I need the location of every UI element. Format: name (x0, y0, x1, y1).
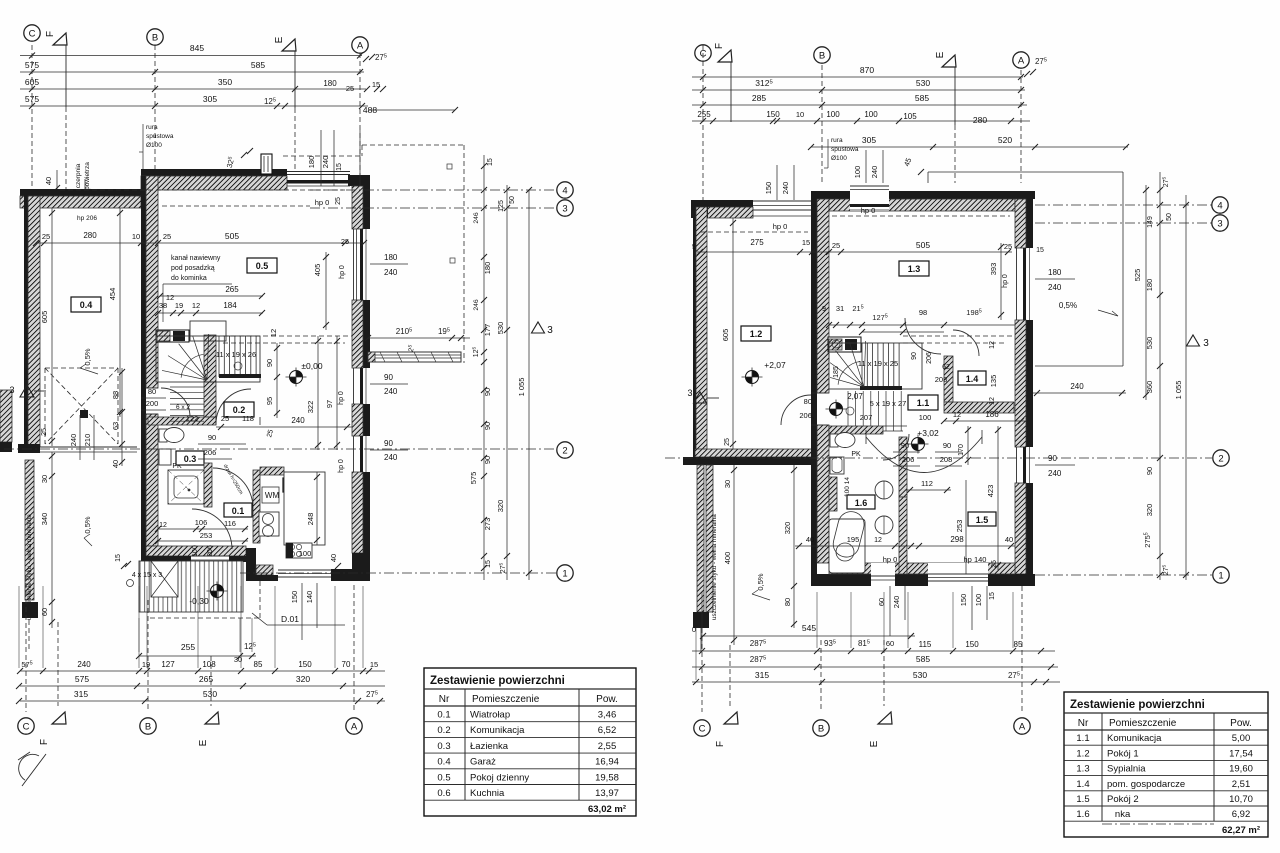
wire axis C dashed vertical bottom (left) (25, 575, 27, 712)
section marker 3 right side (right) (1187, 335, 1200, 346)
svg-text:15: 15 (115, 554, 122, 562)
svg-text:1.2: 1.2 (1076, 748, 1089, 759)
svg-text:Łazienka: Łazienka (470, 741, 509, 752)
dim 545 (right) (701, 635, 915, 637)
wire axis A dashed vertical (right top) (1020, 70, 1022, 183)
wire axis F dashed vertical (left top) (65, 107, 67, 192)
svg-text:320: 320 (296, 674, 310, 684)
node axis-E top triangle (right plan) (942, 55, 956, 67)
svg-text:B: B (145, 721, 151, 732)
svg-text:2,51: 2,51 (1232, 779, 1251, 790)
wire bottom chain 2875/585 (right) (692, 666, 1058, 668)
svg-text:30: 30 (723, 480, 732, 488)
svg-text:106: 106 (195, 518, 208, 527)
svg-text:210: 210 (83, 434, 92, 447)
svg-text:Nr: Nr (439, 694, 450, 705)
wall house top (left) (141, 169, 287, 176)
svg-text:40: 40 (44, 177, 53, 185)
svg-text:±0,00: ±0,00 (301, 361, 322, 371)
wire top chain row4 255-150-10-100-100-105-280 (right) (692, 120, 1030, 122)
svg-text:70: 70 (342, 660, 351, 669)
svg-text:90: 90 (943, 441, 951, 450)
node axis-C bottom circle (left) (18, 718, 34, 734)
svg-text:40: 40 (329, 554, 338, 562)
axis line 4 dash-dot (right) (1035, 204, 1212, 206)
svg-text:1.1: 1.1 (917, 398, 930, 408)
svg-text:100: 100 (864, 110, 878, 119)
wall corridor horizontal right part with door (left) (215, 417, 217, 425)
svg-text:do kominka: do kominka (171, 275, 207, 282)
svg-text:246: 246 (473, 212, 480, 224)
svg-text:Pow.: Pow. (596, 694, 618, 705)
axis line 2 dash-dot (right) (665, 457, 1212, 459)
svg-text:Pokoj dzienny: Pokoj dzienny (470, 772, 529, 783)
dim 265 fireplace (left) (160, 295, 263, 297)
node axis-F top triangle (left plan) (53, 33, 67, 45)
svg-text:207: 207 (860, 413, 873, 422)
svg-text:206,: 206, (799, 411, 814, 420)
wall garage left (left) (24, 189, 28, 447)
wall main right (right) with windows (1026, 191, 1033, 248)
stairs lower run (left) (170, 386, 204, 388)
svg-text:hp 0: hp 0 (338, 459, 345, 473)
svg-text:2: 2 (562, 445, 567, 456)
node axis-E top triangle (left plan) (282, 39, 296, 51)
svg-text:100: 100 (299, 549, 312, 558)
svg-text:0.5: 0.5 (437, 772, 450, 783)
svg-text:305: 305 (862, 135, 876, 145)
svg-text:1.1: 1.1 (1076, 733, 1089, 744)
axis line 3 dash-dot (right) (1035, 222, 1212, 224)
svg-text:97: 97 (325, 400, 334, 408)
svg-text:spustowa: spustowa (146, 133, 174, 140)
svg-text:B: B (818, 723, 824, 734)
svg-text:40: 40 (1005, 535, 1013, 544)
svg-text:400: 400 (723, 552, 732, 565)
door arc 1.3 (right) (905, 318, 941, 354)
svg-text:248: 248 (306, 513, 315, 526)
svg-text:2,55: 2,55 (598, 741, 617, 752)
svg-text:100: 100 (826, 110, 840, 119)
svg-text:90: 90 (208, 433, 216, 442)
svg-text:240: 240 (384, 268, 398, 277)
shower 0.3 (left) (168, 470, 204, 504)
svg-text:hp 140: hp 140 (964, 555, 987, 564)
svg-text:505: 505 (916, 240, 930, 250)
wall stair lower vertical (left) (204, 382, 216, 417)
wall 1.4 bottom (right) (944, 402, 1014, 413)
svg-text:180: 180 (483, 262, 492, 275)
dashed axis line y190 (left) (60, 189, 348, 191)
svg-text:13,97: 13,97 (595, 788, 619, 799)
svg-text:1 055: 1 055 (517, 378, 526, 397)
section marker 3 left edge (right) (694, 392, 707, 403)
window W2 right wall 180/240 (left) (353, 229, 355, 300)
svg-text:F: F (45, 31, 56, 37)
svg-text:Garaż: Garaż (470, 757, 496, 768)
svg-text:180: 180 (384, 253, 398, 262)
svg-text:30: 30 (234, 655, 242, 664)
svg-text:0.4: 0.4 (80, 300, 93, 310)
svg-text:0,5%: 0,5% (83, 516, 92, 533)
svg-text:15: 15 (802, 238, 810, 247)
svg-text:90: 90 (1145, 467, 1154, 475)
svg-text:3: 3 (562, 203, 567, 214)
svg-text:585: 585 (915, 93, 929, 103)
node axis-B bottom circle (left) (140, 718, 156, 734)
stairs upper run treads (right) (829, 343, 922, 389)
stair closet top (right) (828, 337, 861, 352)
svg-text:1: 1 (562, 568, 567, 579)
svg-text:605: 605 (40, 311, 49, 324)
dim 298/40 1.5 (right) (915, 545, 1015, 547)
svg-text:180: 180 (1048, 268, 1062, 277)
label 1.6 room box (right) (847, 495, 875, 509)
window W4 right wall 90/240 (left) (353, 436, 355, 472)
node axis-E bottom triangle (right) (878, 712, 892, 724)
svg-text:240: 240 (1048, 469, 1062, 478)
wire axis F dashed vertical bottom (right) (729, 645, 731, 706)
svg-text:31: 31 (836, 304, 844, 313)
svg-text:285: 285 (752, 93, 766, 103)
wire top dimension chain row4 575/305/125/488 (left) (20, 105, 368, 107)
svg-text:0.2: 0.2 (437, 725, 450, 736)
svg-text:90: 90 (384, 439, 393, 448)
svg-text:F: F (715, 741, 726, 747)
svg-text:240: 240 (892, 596, 901, 609)
label 1.2 room box (right) (741, 326, 771, 341)
wire axis C dashed vertical (left top) (31, 45, 33, 192)
svg-text:240: 240 (870, 166, 879, 179)
door entry arc 0.1 (left) (192, 509, 232, 549)
axis line 1 dash-dot (left) (240, 572, 556, 574)
dim 240 corridor (left) (216, 426, 352, 428)
svg-text:108: 108 (202, 660, 216, 669)
dim 240 roof (right) (1033, 392, 1126, 394)
svg-text:Nr: Nr (1078, 718, 1089, 729)
svg-text:0,5%: 0,5% (83, 348, 92, 365)
svg-text:322: 322 (306, 401, 315, 414)
wall 0.3/0.1 vertical (left) (204, 463, 212, 507)
svg-text:85: 85 (1014, 640, 1023, 649)
svg-text:530: 530 (496, 322, 505, 335)
svg-text:90: 90 (1048, 454, 1057, 463)
svg-text:hp 0: hp 0 (339, 265, 346, 279)
svg-text:30: 30 (40, 475, 49, 483)
roof overhang dashed above porch (left) (150, 617, 260, 619)
terrace slab (left) (368, 352, 461, 362)
svg-text:63: 63 (111, 422, 120, 430)
label D.01 (left) (252, 613, 267, 625)
svg-text:40: 40 (806, 535, 814, 544)
door garage-house opening in left wall (146, 387, 158, 389)
svg-text:95: 95 (265, 397, 274, 405)
wall party strip end block (right) (693, 612, 709, 628)
axis line 4 dash-dot (left) (310, 189, 556, 191)
wire top dimension chain row3 605/350/180/25/15 (left) (20, 88, 366, 90)
wall 1.4 left vertical (right) (944, 356, 953, 402)
stairs winder fan (right) (864, 341, 866, 387)
svg-text:195: 195 (847, 535, 860, 544)
stairs upper run treads (left) (156, 336, 260, 382)
svg-text:62,27 m²: 62,27 m² (1222, 825, 1260, 836)
svg-text:575: 575 (469, 472, 478, 485)
door 0.1-0.3 arc (left) (213, 468, 253, 508)
window right wall 180/240 (right) (1016, 248, 1018, 320)
svg-text:2: 2 (1218, 453, 1223, 464)
svg-text:88: 88 (111, 391, 120, 399)
svg-text:170: 170 (958, 444, 965, 456)
svg-text:575: 575 (75, 674, 89, 684)
dim 605 annex vertical (right) (732, 218, 734, 449)
dashed void stairs (right) (903, 335, 1013, 337)
svg-text:275: 275 (750, 238, 764, 247)
garage door dashed panel (left) (45, 367, 118, 369)
svg-text:150: 150 (959, 594, 968, 607)
room 1.3 label box (right) (899, 261, 929, 276)
svg-text:845: 845 (190, 43, 204, 53)
svg-text:140: 140 (305, 591, 314, 604)
wire bottom chain 255/125 (left) (139, 655, 256, 657)
svg-text:1.4: 1.4 (966, 374, 979, 384)
svg-text:240: 240 (321, 156, 330, 169)
wire bottom chain 315/530/275 (left) (20, 700, 385, 702)
svg-text:rura: rura (831, 137, 843, 144)
svg-text:50: 50 (509, 196, 516, 204)
level symbol -0.30 (left porch) (211, 585, 224, 598)
svg-text:40: 40 (111, 460, 120, 468)
boiler on wall (left) (259, 512, 279, 536)
node axis-E bottom triangle (left) (205, 712, 219, 724)
node axis-A bottom circle (right) (1014, 718, 1030, 734)
svg-text:240: 240 (384, 387, 398, 396)
wire top dimension chain row1 845 (left) (20, 55, 362, 57)
wall party strip end block (left) (22, 602, 38, 618)
dim 248 kitchen (left) (316, 472, 318, 545)
svg-text:180: 180 (307, 156, 316, 169)
svg-text:423: 423 (986, 485, 995, 498)
wall 0.6 top horizontal (left) (260, 467, 284, 475)
svg-text:12: 12 (874, 537, 882, 544)
svg-text:240: 240 (781, 182, 790, 195)
svg-text:150: 150 (298, 660, 312, 669)
svg-text:1.6: 1.6 (855, 498, 868, 508)
wire witness lines bottom walls (right) (701, 592, 703, 648)
svg-text:1.4: 1.4 (1076, 779, 1089, 790)
svg-text:B: B (819, 50, 825, 61)
wall annex top (right) (691, 200, 753, 207)
svg-text:280: 280 (83, 231, 97, 240)
dim column main right (right) (1159, 172, 1161, 580)
dim 30/340/60 far left (left) (51, 452, 53, 628)
svg-text:A: A (1019, 721, 1026, 732)
svg-text:25: 25 (335, 197, 342, 205)
svg-text:206: 206 (902, 455, 915, 464)
svg-text:0.1: 0.1 (232, 506, 245, 516)
svg-text:185: 185 (833, 366, 840, 378)
svg-text:454: 454 (108, 288, 117, 301)
svg-text:9: 9 (822, 306, 826, 313)
svg-text:0.5: 0.5 (256, 261, 269, 271)
svg-text:25: 25 (1004, 242, 1012, 251)
svg-text:hp 0: hp 0 (773, 222, 788, 231)
svg-text:350: 350 (218, 77, 232, 87)
wire extension of chain row4 to right (left) (368, 109, 455, 111)
svg-text:149: 149 (1147, 216, 1154, 228)
svg-text:585: 585 (251, 60, 265, 70)
wire axis A dashed vertical bottom (left) (353, 585, 355, 712)
svg-text:206: 206 (926, 352, 933, 364)
svg-text:6 x 2: 6 x 2 (176, 404, 190, 411)
svg-text:10: 10 (796, 110, 804, 119)
dim 405 vertical (left) (325, 252, 327, 330)
table zestawienie powierzchni (right) (1064, 692, 1268, 837)
svg-text:0.3: 0.3 (184, 454, 197, 464)
node axis-F bottom triangle (right) (724, 712, 738, 724)
svg-text:25: 25 (163, 232, 171, 241)
svg-text:273: 273 (483, 518, 492, 531)
axis circle 1 (right) (1213, 567, 1229, 583)
svg-text:0,5%: 0,5% (756, 573, 765, 590)
svg-text:90: 90 (483, 422, 492, 430)
svg-text:C: C (23, 721, 30, 732)
boiler circles 1.6 (right) (875, 481, 893, 499)
window bottom 150 (right) (928, 563, 988, 586)
wire axis C dashed vertical (right top) (702, 45, 704, 200)
svg-text:38: 38 (159, 301, 167, 310)
dim 2105/195 terrace (left) (368, 337, 470, 339)
svg-text:505: 505 (225, 231, 239, 241)
wire axis B dashed vertical bottom (left) (147, 600, 149, 712)
label 0.6 room box (left) (283, 478, 311, 492)
svg-text:150: 150 (764, 182, 773, 195)
svg-text:90: 90 (483, 388, 492, 396)
wall corridor horizontal (left) (148, 417, 216, 425)
door arc 1.4 (right) (953, 330, 979, 356)
svg-text:E: E (935, 51, 946, 58)
node axis-A top circle (right plan) (1013, 52, 1029, 68)
svg-text:240: 240 (1048, 283, 1062, 292)
label 0.2 room box (left) (224, 402, 254, 417)
dim column outer 1055 (right) (1185, 195, 1187, 580)
wall hall/bath horizontal (right) (829, 426, 883, 434)
svg-text:0.3: 0.3 (437, 741, 450, 752)
roof outline thin rect (right) (928, 171, 1123, 173)
wire axis E dashed vertical bottom (left) (210, 656, 212, 706)
svg-text:25: 25 (346, 84, 354, 93)
svg-text:Sypialnia: Sypialnia (1107, 764, 1146, 775)
svg-text:100: 100 (919, 413, 932, 422)
svg-text:19,58: 19,58 (595, 772, 619, 783)
wire top chain row1 870 (right) (692, 76, 1023, 78)
svg-text:hp 0: hp 0 (861, 206, 876, 215)
axis circle 4 right (left) (557, 182, 573, 198)
svg-text:240: 240 (69, 434, 78, 447)
svg-text:122: 122 (186, 414, 199, 423)
svg-text:60: 60 (886, 639, 894, 648)
svg-text:WM: WM (265, 491, 280, 500)
label 1.5 room box (right) (968, 512, 996, 526)
wire axis B dashed vertical (left top) (154, 45, 156, 169)
wire axis E dashed vertical (right top) (954, 125, 956, 183)
axis circle 2 (right) (1213, 450, 1229, 466)
label hp 0 dashed (left) (162, 205, 310, 207)
axis line 2 dash-dot (left) (4, 448, 556, 450)
svg-text:hp 0: hp 0 (338, 391, 345, 405)
kitchen stove (left) (286, 543, 312, 558)
svg-text:Pokój 2: Pokój 2 (1107, 794, 1139, 805)
wall garage top (left) (20, 189, 141, 196)
svg-text:12: 12 (192, 301, 200, 310)
wall 1.6/1.5 vertical (right) (899, 437, 907, 497)
dim 322 / 975 verticals (left) (317, 336, 319, 450)
svg-text:315: 315 (74, 689, 88, 699)
toilet 1.6 (right) (830, 434, 838, 447)
bathtub 1.6 (right) (829, 519, 865, 573)
svg-text:3,46: 3,46 (598, 710, 617, 721)
dim column 525 (right) (1145, 185, 1147, 400)
wall step connector bottom (left) (246, 548, 256, 581)
svg-text:280: 280 (973, 115, 987, 125)
dim 454 vertical (left) (119, 208, 121, 417)
svg-text:Zestawienie powierzchni: Zestawienie powierzchni (430, 675, 565, 687)
node axis-B bottom circle (right) (813, 720, 829, 736)
wall niche 1.6 (right) (829, 477, 837, 511)
svg-text:F: F (39, 739, 50, 745)
svg-text:100: 100 (192, 545, 199, 557)
svg-text:118: 118 (242, 414, 254, 423)
window kitchen bottom 150 (left) (278, 569, 331, 571)
label 1.1 room box (right) (908, 395, 938, 410)
stairs lower run treads (right) (847, 391, 849, 431)
dim 275/15 annex (right) (697, 251, 829, 253)
svg-text:3: 3 (1203, 338, 1209, 349)
svg-text:Ø100: Ø100 (831, 155, 847, 162)
svg-text:50: 50 (1166, 213, 1173, 221)
svg-text:Pow.: Pow. (1230, 718, 1252, 729)
dashed void line stairs (left) (223, 335, 352, 337)
svg-text:4: 4 (1217, 200, 1222, 211)
door 1.2-hall opening left wall (right) (811, 392, 829, 394)
svg-text:0.1: 0.1 (437, 710, 450, 721)
svg-text:525: 525 (1133, 269, 1142, 282)
svg-text:3: 3 (547, 325, 553, 336)
svg-text:186: 186 (985, 410, 999, 419)
svg-text:kanał nawiewny: kanał nawiewny (171, 255, 221, 262)
node axis-C top circle (left plan) (24, 25, 40, 41)
svg-text:253: 253 (200, 531, 213, 540)
dim 95 vertical (left) (276, 382, 278, 418)
svg-text:2,07: 2,07 (847, 392, 863, 401)
svg-text:PK: PK (851, 451, 861, 458)
svg-text:25: 25 (42, 232, 50, 241)
svg-text:255: 255 (697, 110, 711, 119)
wire bottom chain 2875-935-815-60-115-150-85 (right) (692, 650, 1055, 652)
svg-text:545: 545 (802, 623, 816, 633)
axis circle 3 (right) (1212, 215, 1228, 231)
axis circle 4 (right) (1212, 197, 1228, 213)
wall main top (right) (811, 191, 1035, 199)
dim 112 (right) (906, 489, 951, 491)
svg-text:pom. gospodarcze: pom. gospodarcze (1107, 779, 1185, 790)
break mark bottom left (19, 754, 39, 780)
label 0.1 room box (left) (224, 503, 252, 517)
svg-text:585: 585 (916, 654, 930, 664)
svg-text:0.6: 0.6 (437, 788, 450, 799)
svg-text:150: 150 (965, 640, 979, 649)
wire witness lines bottom walls (left) (18, 586, 20, 668)
hearth outline (left) (190, 321, 226, 341)
